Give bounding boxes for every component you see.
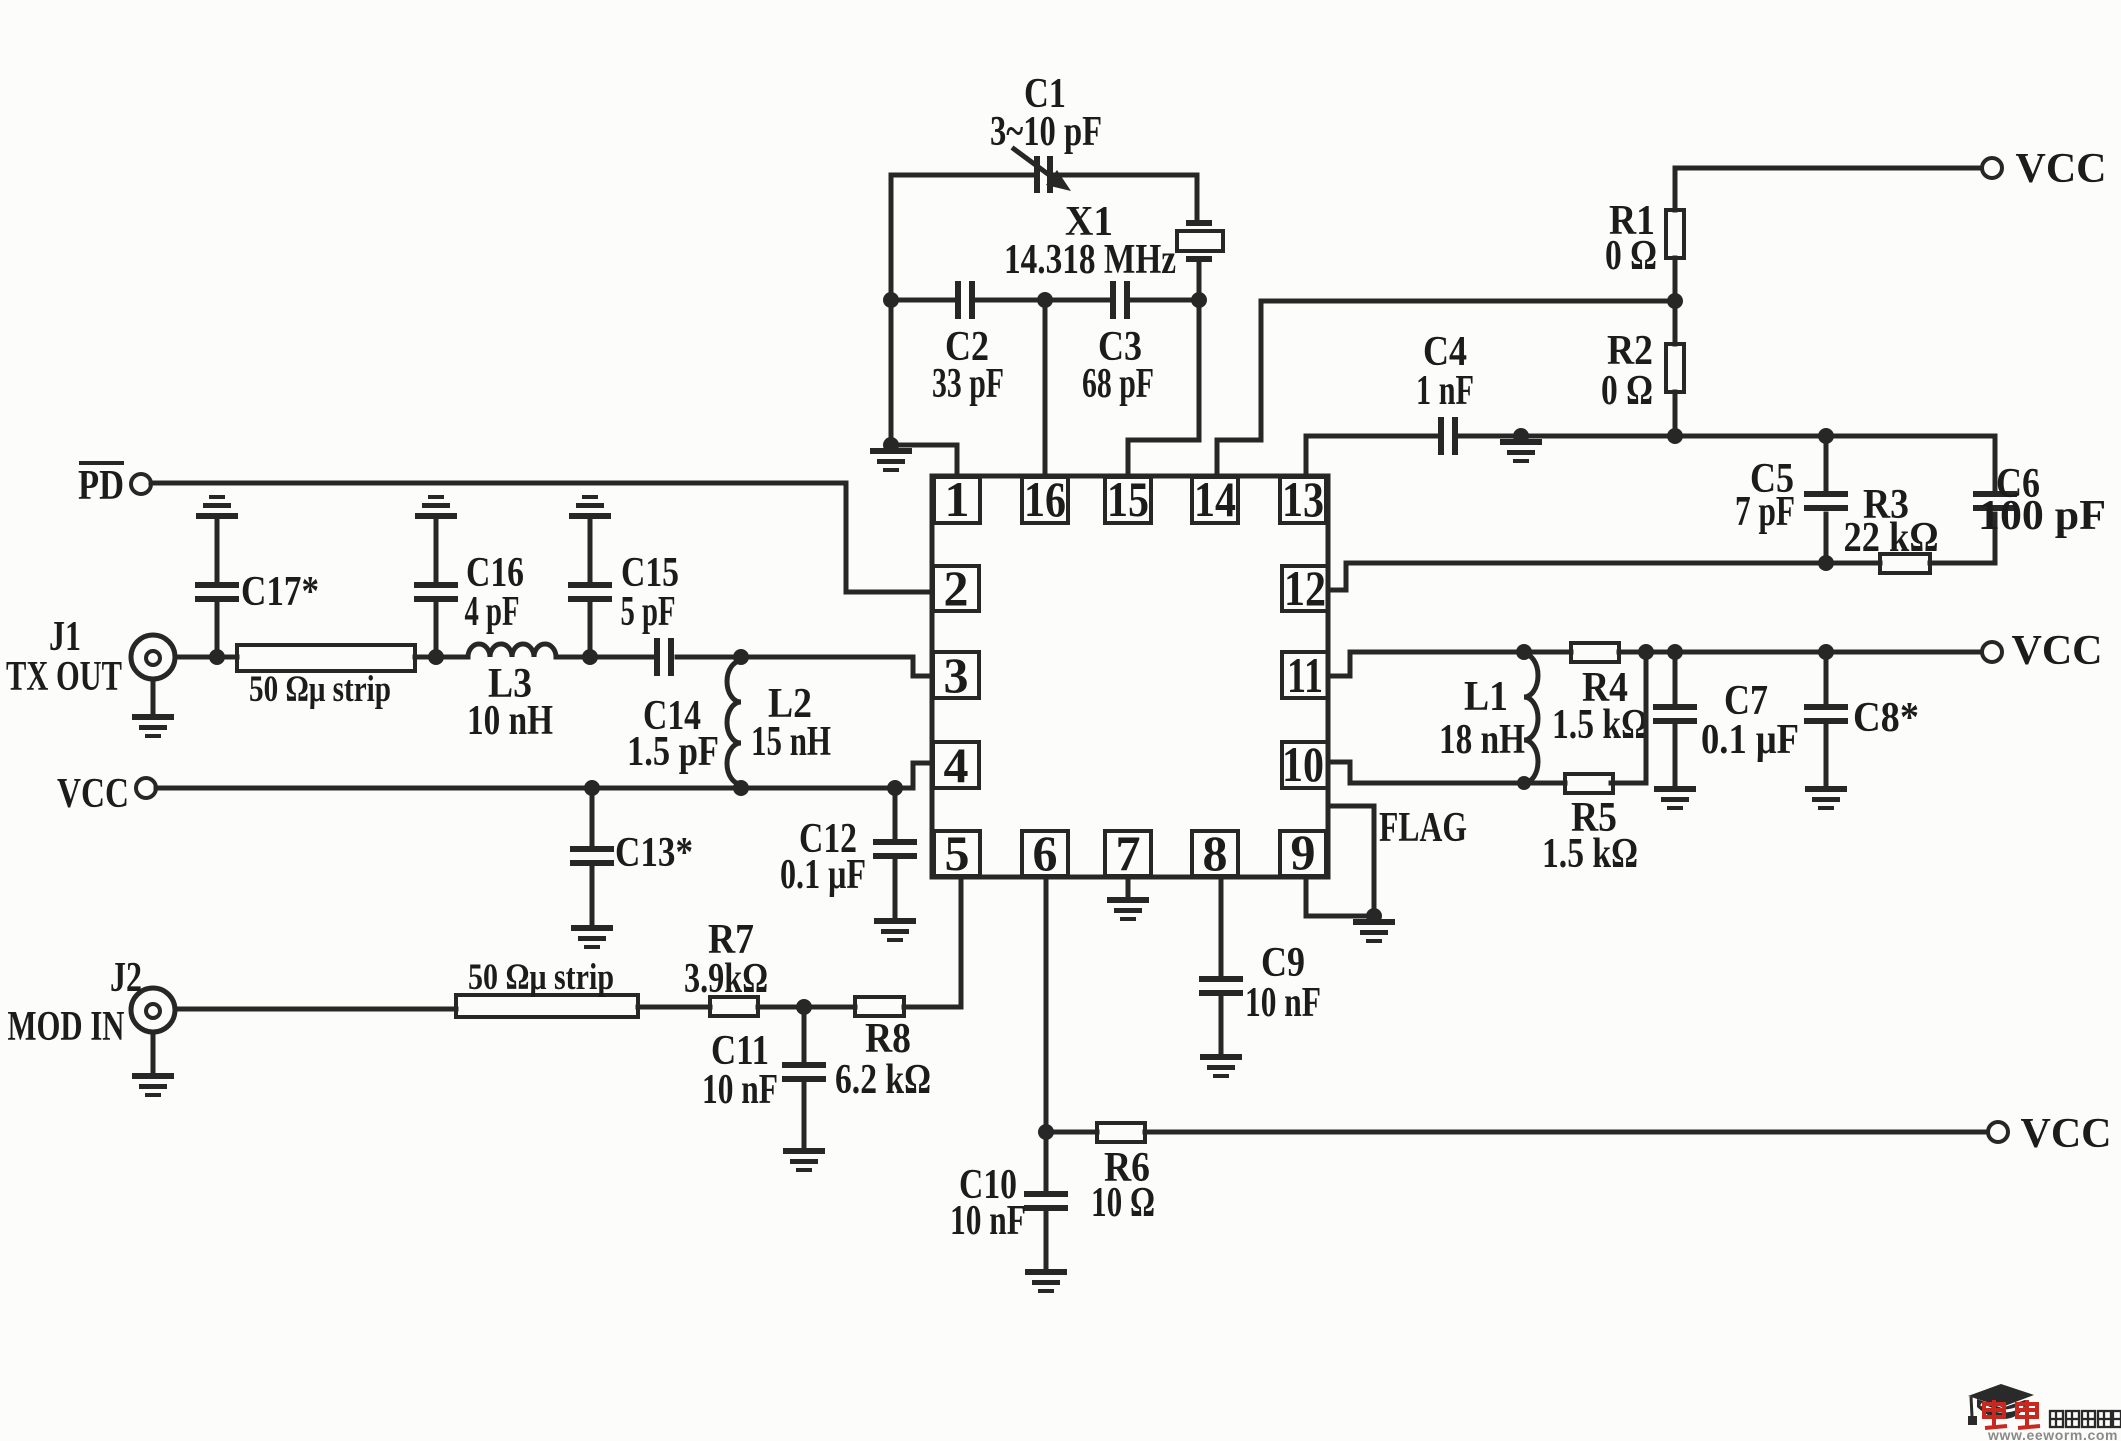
svg-text:FLAG: FLAG [1379, 805, 1467, 851]
crystal X1 14.318 MHz [1004, 199, 1223, 300]
svg-text:1.5 kΩ: 1.5 kΩ [1542, 831, 1638, 877]
svg-text:4 pF: 4 pF [465, 589, 520, 635]
svg-text:100 pF: 100 pF [1978, 493, 2106, 539]
svg-text:MOD IN: MOD IN [8, 1004, 125, 1050]
svg-text:0.1 μF: 0.1 μF [1701, 717, 1799, 763]
capacitor C8* [1804, 652, 1919, 786]
wire VCC rail to R1 [1675, 168, 1981, 210]
node junction FLAG ground [1366, 908, 1382, 924]
svg-text:0 Ω: 0 Ω [1605, 233, 1657, 279]
capacitor C2 33 pF [932, 281, 1004, 407]
svg-text:0.1 μF: 0.1 μF [780, 852, 866, 898]
ground (C13) [571, 928, 613, 947]
svg-text:10 Ω: 10 Ω [1091, 1180, 1155, 1226]
wire pin 12 line with R3 [1329, 563, 1995, 590]
watermark logo graduation cap [1968, 1384, 2034, 1425]
svg-text:R8: R8 [865, 1016, 911, 1062]
svg-text:10 nF: 10 nF [702, 1067, 778, 1113]
node junction L1 top [1516, 644, 1532, 660]
capacitor C9 10 nF [1199, 940, 1321, 1026]
resistor R3 22 kOhm [1844, 482, 1939, 573]
capacitor C17* (to ground above) [195, 497, 319, 657]
node junction C8 top [1818, 644, 1834, 660]
IC U1 body [932, 476, 1328, 877]
ground (C7) [1654, 789, 1696, 808]
svg-text:22 kΩ: 22 kΩ [1844, 515, 1939, 561]
wire R6 line to VCC [1046, 1130, 1987, 1135]
inductor L2 15 nH [727, 657, 831, 788]
pin 15 [1105, 471, 1151, 527]
node junction C7 top [1667, 644, 1683, 660]
resistor R2 0 ohm [1601, 328, 1684, 414]
inductor L1 18 nH [1439, 652, 1538, 783]
svg-text:18 nH: 18 nH [1439, 717, 1525, 763]
wire strip to R7 [638, 1005, 710, 1010]
wire VCC rail to pin 4 [156, 763, 932, 788]
node junction pin16 branch [1037, 292, 1053, 308]
pin 16 [1022, 471, 1068, 527]
pin 12 [1282, 560, 1328, 616]
svg-text:1.5 pF: 1.5 pF [627, 729, 719, 775]
microstrip 50 ohm (TX) [237, 645, 415, 710]
pin 8 [1192, 825, 1238, 881]
svg-text:13: 13 [1282, 471, 1324, 527]
svg-text:1 nF: 1 nF [1416, 368, 1474, 414]
wire C1 feedback loop top [891, 175, 1197, 300]
resistor R4 1.5 kOhm [1552, 643, 1648, 748]
node junction R1/R2/pin14 [1667, 293, 1683, 309]
svg-text:15 nH: 15 nH [751, 719, 831, 765]
pin 7 [1105, 825, 1151, 881]
svg-text:TX OUT: TX OUT [6, 654, 122, 700]
capacitor C12 0.1 uF [780, 788, 917, 918]
terminal VCC (bottom right) [1988, 1111, 2112, 1157]
svg-text:14: 14 [1194, 471, 1236, 527]
svg-text:16: 16 [1024, 471, 1066, 527]
svg-text:10 nF: 10 nF [1245, 980, 1321, 1026]
wire pin 16 stub [1043, 300, 1048, 476]
pin 10 [1282, 736, 1328, 792]
inductor L3 10 nH [467, 644, 556, 744]
capacitor C11 10 nF [702, 1007, 826, 1148]
wire R8 to pin 5 [904, 877, 961, 1007]
svg-text:50 Ωμ strip: 50 Ωμ strip [468, 957, 614, 998]
capacitor C16 4 pF (to ground above) [414, 497, 524, 657]
ground (J1) [132, 717, 174, 736]
pin 5 [934, 825, 980, 881]
svg-text:1.5 kΩ: 1.5 kΩ [1552, 702, 1648, 748]
capacitor C6 100 pF [1973, 436, 2106, 563]
ground (FLAG/pin9) [1353, 922, 1395, 941]
ground (C4 line) [1500, 442, 1542, 461]
terminal VCC (middle right) [1982, 628, 2103, 674]
svg-text:L1: L1 [1464, 674, 1508, 720]
svg-text:3~10 pF: 3~10 pF [990, 109, 1102, 155]
pin 2 [933, 560, 979, 616]
wire R1 to R2 [1673, 258, 1678, 344]
svg-text:VCC: VCC [57, 771, 129, 817]
capacitor C5 7 pF [1735, 436, 1848, 563]
node junction C2 left / ground branch [883, 292, 899, 308]
svg-text:33 pF: 33 pF [932, 361, 1004, 407]
wire R2 bottom to C4 line [1673, 392, 1678, 436]
svg-text:5 pF: 5 pF [621, 589, 676, 635]
svg-text:12: 12 [1284, 560, 1326, 616]
capacitor C7 0.1 uF [1653, 652, 1799, 786]
connector J1 TX OUT [6, 614, 175, 700]
node junction ground tap [883, 437, 899, 453]
svg-text:PD: PD [78, 463, 124, 509]
resistor R1 0 ohm [1605, 198, 1684, 279]
node junction pin6/C10/R6 [1038, 1124, 1054, 1140]
ground (C11) [783, 1151, 825, 1170]
capacitor C13* [570, 788, 693, 925]
wire pin 8 to C9 [1219, 877, 1224, 1054]
node junction C15 tap [582, 649, 598, 665]
wire J1 output line [175, 657, 932, 676]
node junction C5 bottom [1818, 555, 1834, 571]
wire pin 13 line through C4 to C6 [1306, 436, 1995, 476]
svg-text:3: 3 [944, 647, 969, 703]
node junction L1 bottom [1517, 776, 1531, 790]
node junction C4 ground tap [1513, 428, 1529, 444]
svg-text:10 nH: 10 nH [467, 698, 553, 744]
resistor R8 6.2 kOhm [835, 997, 931, 1103]
svg-text:C13*: C13* [615, 830, 693, 876]
connector J2 MOD IN [8, 955, 176, 1050]
wire pin 10 line with R5 [1329, 652, 1646, 783]
svg-text:9: 9 [1291, 824, 1316, 880]
node junction C12 tap [887, 780, 903, 796]
svg-text:50 Ωμ strip: 50 Ωμ strip [249, 669, 391, 710]
node junction C5 top [1818, 428, 1834, 444]
pin 6 [1022, 825, 1068, 881]
svg-text:14.318 MHz: 14.318 MHz [1004, 237, 1176, 283]
pin 3 [933, 647, 979, 703]
node junction C11 tap [796, 999, 812, 1015]
pin 4 [933, 737, 979, 793]
wire J2 input line [175, 1007, 456, 1012]
ground (C10) [1025, 1272, 1067, 1291]
ground (C9) [1200, 1057, 1242, 1076]
ground (J2) [132, 1076, 174, 1095]
wire C2/C3 oscillator line [891, 298, 1199, 303]
svg-text:C17*: C17* [241, 569, 319, 615]
node VCC label (left) [57, 771, 129, 817]
ground (C12) [874, 921, 916, 940]
wire pin 11 line [1329, 652, 1981, 676]
node junction R4/R5 right [1638, 644, 1654, 660]
node junction R2 bottom [1667, 428, 1683, 444]
pin 1 [934, 471, 980, 527]
svg-text:J2: J2 [110, 955, 142, 1001]
pin 11 [1282, 647, 1328, 703]
wire pin 15 jog to crystal [1128, 300, 1199, 476]
wire ground drop and pin 1 riser [891, 300, 957, 476]
svg-text:VCC: VCC [2012, 628, 2103, 674]
svg-text:10 nF: 10 nF [950, 1198, 1026, 1244]
pin 13 [1280, 471, 1326, 527]
svg-text:0 Ω: 0 Ω [1601, 368, 1653, 414]
watermark url www.eeworm.com [1987, 1427, 2118, 1441]
ground (oscillator) [870, 451, 912, 470]
svg-text:VCC: VCC [2021, 1111, 2112, 1157]
microstrip 50 ohm (MOD) [456, 957, 638, 1017]
ground (C8) [1805, 789, 1847, 808]
pin 14 [1192, 471, 1238, 527]
terminal PD [131, 474, 151, 494]
svg-text:8: 8 [1203, 825, 1228, 881]
capacitor C3 68 pF [1082, 281, 1154, 407]
svg-text:11: 11 [1287, 647, 1323, 703]
terminal VCC (top right) [1982, 146, 2107, 192]
watermark text chong chong (red) [1984, 1400, 2040, 1428]
capacitor C1 (variable, 3~10 pF) [990, 71, 1102, 193]
wire pin 7 ground stub [1126, 877, 1131, 897]
node junction C13 tap [584, 780, 600, 796]
pin 9 [1280, 824, 1326, 880]
svg-text:2: 2 [944, 560, 969, 616]
node junction C16 tap [428, 649, 444, 665]
svg-text:6: 6 [1033, 825, 1058, 881]
wire pin 6 drop [1044, 877, 1049, 1132]
capacitor C14 1.5 pF (series) [627, 638, 719, 775]
wire J1 ground stub [151, 679, 156, 714]
svg-text:7: 7 [1116, 825, 1141, 881]
wire pin 14 jog to R1/R2 node [1217, 301, 1675, 476]
node PD with overline [78, 463, 124, 509]
wire R7 to R8 [758, 1005, 855, 1010]
svg-text:1: 1 [945, 471, 970, 527]
svg-text:4: 4 [944, 737, 969, 793]
svg-text:6.2 kΩ: 6.2 kΩ [835, 1057, 931, 1103]
svg-text:www.eeworm.com: www.eeworm.com [1987, 1427, 2118, 1441]
svg-text:7 pF: 7 pF [1735, 489, 1795, 535]
svg-text:68 pF: 68 pF [1082, 361, 1154, 407]
node junction L2 bottom [733, 780, 749, 796]
watermark text dianzi xiazaizhan (black) [2050, 1411, 2121, 1427]
resistor R7 3.9 kOhm [684, 917, 768, 1016]
resistor R6 10 ohm [1091, 1123, 1155, 1226]
capacitor C15 5 pF (to ground above) [568, 497, 679, 657]
terminal VCC (left) [136, 778, 156, 798]
wire FLAG net [1329, 805, 1467, 916]
resistor R5 1.5 kOhm [1542, 774, 1638, 877]
svg-text:15: 15 [1107, 471, 1149, 527]
svg-text:5: 5 [945, 825, 970, 881]
node junction crystal bottom [1191, 292, 1207, 308]
ground (pin 7) [1107, 900, 1149, 919]
wire J2 ground stub [151, 1032, 156, 1073]
wire pin 9 to ground [1306, 877, 1374, 916]
wire PD to pin 2 [151, 483, 932, 592]
svg-text:3.9kΩ: 3.9kΩ [684, 956, 768, 1002]
svg-text:10: 10 [1282, 736, 1324, 792]
capacitor C4 1 nF [1416, 329, 1474, 455]
node junction C17 tap [209, 649, 225, 665]
node junction L2 top [733, 649, 749, 665]
svg-text:C8*: C8* [1853, 695, 1919, 741]
capacitor C10 10 nF [950, 1132, 1068, 1269]
svg-text:VCC: VCC [2016, 146, 2107, 192]
